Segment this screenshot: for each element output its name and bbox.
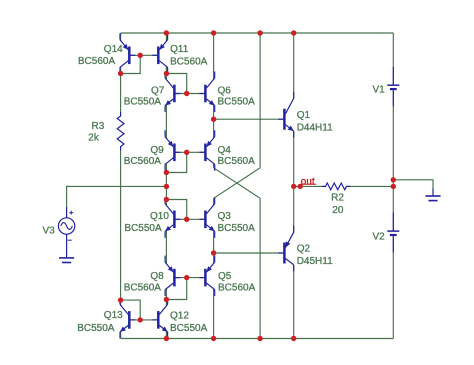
wire Q12 emitter to bottom rail [165,331,167,338]
svg-text:Q13: Q13 [104,310,123,321]
wire Q11 emitter to top rail [165,33,167,41]
wire right rail top [392,33,394,67]
label R3 [92,121,105,132]
svg-text:BC560A: BC560A [78,56,116,67]
value BC560A of Q9 [124,156,162,167]
label Q14 [104,44,123,55]
wire left rail upper (Q14 emitter to top rail) [120,33,122,41]
svg-text:out: out [301,177,315,188]
resistor R3 [117,112,124,151]
svg-text:BC560A: BC560A [124,283,162,294]
junction driver Q2 base node [211,250,216,255]
svg-text:V1: V1 [373,85,386,96]
junction input node [164,184,169,189]
junction driver Q1 base node [211,117,216,122]
junction out label node [298,184,303,189]
value BC550A of Q13 [77,323,115,334]
svg-text:BC550A: BC550A [218,223,256,234]
label Q13 [104,310,123,321]
wire Q11 collector to Q7 collector [165,67,167,80]
label Q9 [150,145,164,156]
svg-text:Q5: Q5 [218,271,232,282]
junction bottom rail at Q2 [291,336,296,341]
svg-text:R3: R3 [92,121,105,132]
value D44H11 of Q1 [297,123,333,134]
junction top rail at Q11 [164,30,169,35]
transistor Q9 [165,130,180,171]
junction top rail middle branch [257,30,262,35]
transistor Q7 [165,72,180,113]
label R2 [331,193,344,204]
svg-text:BC560A: BC560A [170,56,208,67]
wire Q14 collector to R3 [120,67,122,112]
transistor Q3 [199,197,214,238]
wire cross diagonal Q3 collector to top branch [214,168,261,199]
wire Q2 collector to bottom rail [293,265,295,338]
wire Q6 emitter to Q4 emitter [213,105,215,138]
svg-text:Q7: Q7 [151,85,165,96]
transistor Q1 [278,92,293,138]
value BC560A of Q8 [124,283,162,294]
wire Q6 collector to top rail [213,33,215,80]
wire Q10 Q3 base tie [176,218,205,220]
label Q8 [150,271,164,282]
wire V3 plus to input [67,186,70,207]
wire driver to Q1 base [214,118,284,120]
label Q6 [218,85,232,96]
junction bottom rail at Q12 [164,336,169,341]
transistor Q14 [120,33,135,74]
wire out node to R2 [294,185,322,187]
svg-text:BC550A: BC550A [170,323,208,334]
wire Q14 base to collector loop [121,55,141,73]
svg-text:R2: R2 [331,193,344,204]
wire V1 to ground node [392,107,394,213]
AC source V3 [58,207,74,245]
label Q2 [297,244,311,255]
transistor Q8 [165,256,180,297]
label V3 [43,226,56,237]
wire Q8 base to collector loop [166,278,186,300]
value D45H11 of Q2 [297,256,333,267]
wire Q4 collector stub [213,164,215,168]
svg-text:2k: 2k [88,133,100,144]
svg-text:Q2: Q2 [297,244,311,255]
wire Q7 emitter to Q9 emitter [165,105,167,138]
svg-text:BC560A: BC560A [124,156,162,167]
wire Q3 collector stub [213,198,215,205]
wire Q14 Q11 base tie [130,54,157,56]
value BC550A of Q7 [124,97,162,108]
value BC550A of Q3 [218,223,256,234]
svg-text:20: 20 [332,205,344,216]
junction top rail at Q6 [211,30,216,35]
svg-text:Q9: Q9 [150,145,164,156]
junction bottom rail middle branch [257,336,262,341]
wire cross diagonal Q4 collector to bottom branch [214,168,261,199]
junction Q9 Q4 bases [184,150,189,155]
wire Q13 Q12 base tie [130,319,157,321]
wire Q1 emitter to out node [293,132,295,187]
wire bottom supply rail [121,338,394,340]
wire Q10 base to collector loop [166,200,186,220]
wire out node to Q2 emitter [293,186,295,233]
transistor Q5 [199,256,214,297]
wire top supply rail [121,32,394,34]
wire Q9 base to collector loop [166,152,186,172]
svg-text:Q1: Q1 [297,110,311,121]
wire middle branch from top rail [259,33,261,168]
junction bias node [164,71,169,76]
junction Q8 collector [164,297,169,302]
wire V2 to bottom rail [392,253,394,339]
svg-text:V3: V3 [43,226,56,237]
wire bias node to Q7 Q6 bases [166,74,186,94]
value BC560A of Q14 [78,56,116,67]
transistor Q10 [165,197,180,238]
svg-text:D45H11: D45H11 [297,256,333,267]
label Q10 [150,211,169,222]
svg-text:BC550A: BC550A [124,97,162,108]
wire Q13 emitter to bottom rail [120,331,122,338]
wire Q9 Q4 base tie [176,151,205,153]
transistor Q4 [199,130,214,171]
junction right rail out [391,184,396,189]
junction top rail at Q1 [291,30,296,35]
svg-text:BC550A: BC550A [77,323,115,334]
resistor R2 [322,183,351,190]
transistor Q13 [120,298,135,339]
wire R3 to Q13 collector [120,151,122,306]
wire Q3 emitter to Q5 emitter [213,231,215,264]
transistor Q11 [152,33,167,74]
svg-text:Q4: Q4 [218,145,232,156]
junction Q14 Q11 bases [138,53,143,58]
transistor Q2 [278,226,293,272]
battery V1 [387,67,399,107]
svg-text:Q6: Q6 [218,85,232,96]
label Q7 [151,85,165,96]
svg-text:Q3: Q3 [218,211,232,222]
junction Q9 collector [164,170,169,175]
value BC550A of Q6 [218,97,256,108]
value BC560A of Q4 [218,156,256,167]
label V2 [373,232,386,243]
junction Q10 Q3 bases [184,217,189,222]
svg-text:Q8: Q8 [150,271,164,282]
label Q3 [218,211,232,222]
svg-text:V2: V2 [373,232,386,243]
svg-text:Q11: Q11 [170,44,189,55]
svg-text:Q12: Q12 [170,310,189,321]
wire input from V3 [67,185,167,187]
wire Q7 Q6 base tie [176,93,205,95]
svg-text:Q10: Q10 [150,211,169,222]
junction bottom rail at Q5 [211,336,216,341]
wire Q8 collector to Q12 collector [165,289,167,306]
junction out at emitters [291,184,296,189]
wire driver to Q2 base [214,252,284,254]
battery V2 [387,213,399,253]
svg-text:BC560A: BC560A [218,283,256,294]
junction Q8 Q5 bases [184,275,189,280]
label Q5 [218,271,232,282]
wire Q9 collector to Q10 collector [165,164,167,206]
transistor Q12 [152,298,167,339]
wire R2 to right rail [351,185,394,187]
junction Q10 collector [164,197,169,202]
svg-text:BC550A: BC550A [124,223,162,234]
svg-text:BC550A: BC550A [218,97,256,108]
wire Q1 collector to top rail [293,33,295,99]
label Q12 [170,310,189,321]
junction Q13 collector [118,297,123,302]
svg-text:Q14: Q14 [104,44,123,55]
ground at right rail [425,189,440,201]
value BC550A of Q10 [124,223,162,234]
wire Q13 collector to base loop [121,300,141,320]
wire Q5 collector to bottom rail [213,289,215,338]
label Q1 [297,110,311,121]
value BC550A of Q12 [170,323,208,334]
node label out [300,177,316,188]
value 20 of R2 [332,205,344,216]
junction Q13 Q12 bases [138,317,143,322]
wire Q8 Q5 base tie [176,277,205,279]
value BC560A of Q5 [218,283,256,294]
svg-text:BC560A: BC560A [218,156,256,167]
wire right rail to ground [393,180,433,189]
wire middle branch to bottom rail [259,198,261,338]
junction Q7 Q6 bases [184,91,189,96]
svg-text:D44H11: D44H11 [297,123,333,134]
label V1 [373,85,386,96]
value 2k of R3 [88,133,100,144]
value BC560A of Q11 [170,56,208,67]
transistor Q6 [199,72,214,113]
label Q4 [218,145,232,156]
label Q11 [170,44,189,55]
wire Q10 emitter to Q8 emitter [165,231,167,264]
junction right rail ground tap [391,177,396,182]
ground at V3 [59,245,74,263]
junction Q14 collector [118,71,123,76]
